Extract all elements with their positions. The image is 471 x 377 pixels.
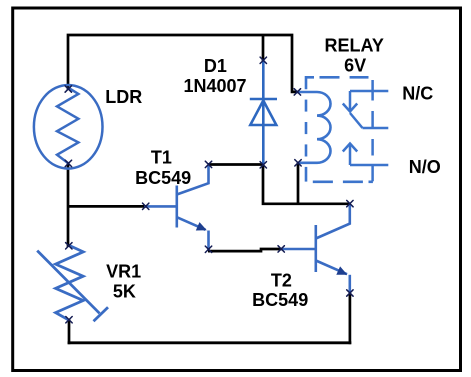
node T1 emitter [205,246,211,252]
svg-text:D1: D1 [204,56,227,76]
T2 emitter arrow [336,266,347,274]
node T2 base [278,246,284,252]
relay dashed enclosure [306,77,373,182]
node relay coil bottom [295,160,301,166]
wire diode bottom down and across to T2 collector [263,165,350,204]
relay N/C contact [343,80,389,128]
svg-text:VR1: VR1 [106,261,141,281]
wire T1 emitter to T2 base [208,249,282,251]
node VR1 top [66,243,72,249]
wire VR1 bottom drop [68,319,71,344]
diode D1 [250,60,277,165]
wire T1 collector to diode bottom [208,163,264,166]
svg-text:1N4007: 1N4007 [183,76,246,96]
svg-text:RELAY: RELAY [325,36,384,56]
T1 emitter arrow [196,222,207,230]
node LDR top [65,86,71,92]
node T2 emitter [347,290,353,296]
wire diode top drop [262,35,265,61]
relay coil [297,92,331,163]
wire relay coil bottom drop [297,163,300,206]
svg-text:N/O: N/O [409,157,441,177]
wire top rail [68,35,299,92]
node relay coil top [294,89,300,95]
svg-text:6V: 6V [344,56,366,76]
svg-text:T2: T2 [271,270,292,290]
wire T2 emitter drop [349,293,352,344]
wire LDR bottom to VR1 top [67,163,70,248]
variable resistor VR1 [37,246,108,322]
transistor T1 [144,165,209,250]
svg-text:BC549: BC549 [135,168,191,188]
svg-text:LDR: LDR [105,87,142,107]
relay N/O contact [343,139,389,181]
svg-text:BC549: BC549 [252,290,308,310]
svg-text:5K: 5K [113,281,136,301]
node T2 collector [347,200,353,206]
wire T1 base feed [68,205,146,208]
svg-text:T1: T1 [151,148,172,168]
node T1 collector [205,161,211,167]
node LDR bottom [65,160,71,166]
node D1 bottom junction [260,162,266,168]
transistor T2 [280,205,350,294]
wire bottom rail [68,341,352,344]
svg-text:N/C: N/C [402,83,433,103]
LDR photoresistor [34,85,103,169]
node D1 top [260,57,266,63]
node VR1 bottom [66,317,72,323]
node T1 base junction [143,203,149,209]
